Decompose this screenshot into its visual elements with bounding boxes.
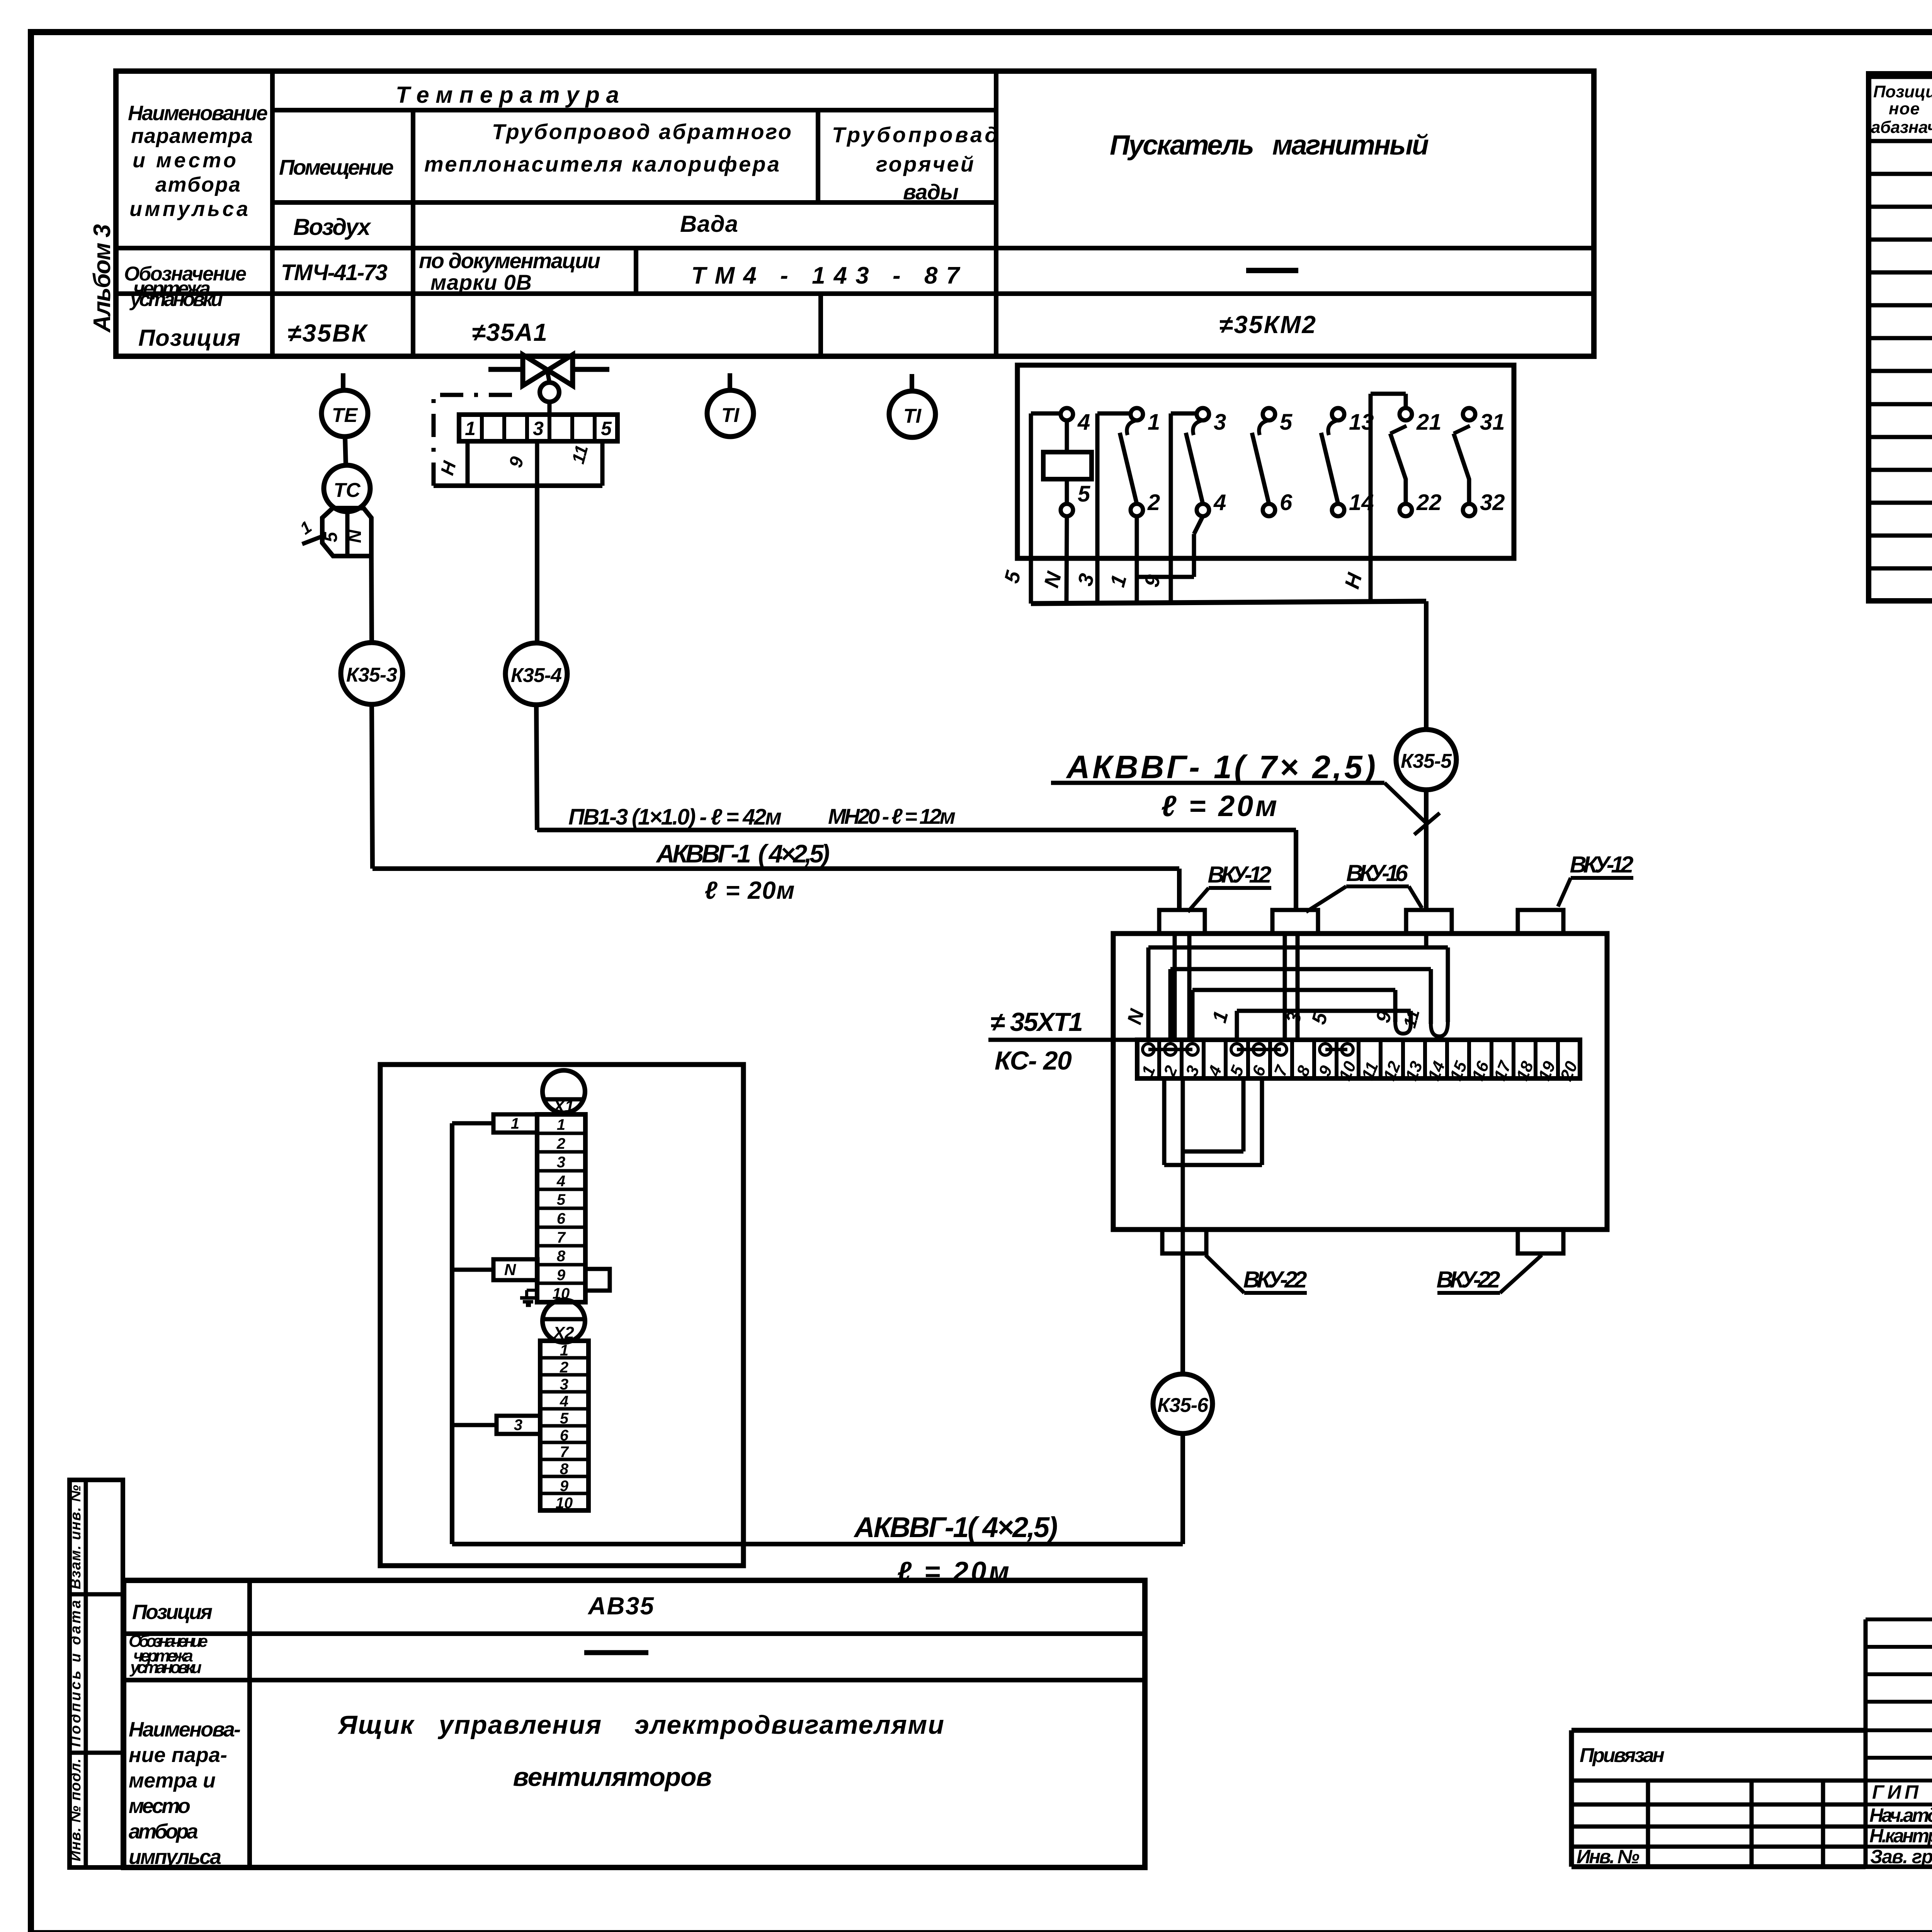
svg-text:Позиция: Позиция: [138, 325, 240, 351]
svg-text:абазначен.: абазначен.: [1871, 118, 1932, 137]
svg-text:6: 6: [557, 1210, 566, 1227]
svg-text:Т е м п е р а т у р а: Т е м п е р а т у р а: [396, 82, 619, 108]
svg-text:Воздух: Воздух: [293, 214, 372, 240]
svg-text:1: 1: [1148, 410, 1160, 435]
svg-text:АКВВГ-1 ( 4×2,5): АКВВГ-1 ( 4×2,5): [656, 839, 830, 868]
svg-text:импульса: импульса: [129, 1845, 221, 1869]
svg-text:3: 3: [514, 1417, 522, 1434]
svg-text:Позиция: Позиция: [132, 1600, 213, 1624]
svg-text:2: 2: [1147, 490, 1160, 515]
svg-text:6: 6: [560, 1427, 569, 1444]
svg-text:Взам. инв. №: Взам. инв. №: [68, 1485, 84, 1589]
svg-text:вентиляторов: вентиляторов: [513, 1762, 712, 1792]
svg-text:32: 32: [1480, 490, 1505, 515]
svg-text:Зав. гр.: Зав. гр.: [1870, 1846, 1932, 1867]
svg-text:4: 4: [1077, 410, 1090, 435]
svg-text:Наименова-: Наименова-: [129, 1718, 241, 1741]
svg-text:ВКУ-12: ВКУ-12: [1208, 862, 1272, 888]
svg-text:3: 3: [557, 1154, 565, 1171]
svg-text:установки: установки: [129, 1658, 202, 1677]
svg-text:6: 6: [1280, 490, 1293, 515]
svg-text:10: 10: [556, 1495, 573, 1512]
svg-text:Трубопровод абратного: Трубопровод абратного: [492, 119, 791, 144]
svg-text:К35-5: К35-5: [1401, 750, 1452, 772]
svg-text:МН20 - ℓ = 12м: МН20 - ℓ = 12м: [828, 804, 956, 828]
svg-text:5: 5: [560, 1410, 569, 1427]
svg-text:АВ35: АВ35: [587, 1592, 654, 1620]
svg-text:ℓ = 20м: ℓ = 20м: [1161, 790, 1277, 823]
svg-text:5: 5: [601, 418, 612, 439]
svg-text:5: 5: [1280, 410, 1293, 435]
svg-text:импульса: импульса: [129, 197, 248, 221]
svg-text:3: 3: [560, 1376, 568, 1393]
svg-text:Трубопровад: Трубопровад: [832, 122, 998, 147]
svg-text:АКВВГ-1( 4×2,5): АКВВГ-1( 4×2,5): [854, 1511, 1058, 1543]
svg-text:Привязан: Привязан: [1580, 1744, 1665, 1767]
svg-text:2: 2: [560, 1359, 568, 1376]
svg-text:≠35А1: ≠35А1: [472, 318, 547, 346]
svg-text:1: 1: [560, 1342, 568, 1359]
svg-text:ГИП: ГИП: [1872, 1781, 1919, 1803]
svg-text:≠35ВК: ≠35ВК: [287, 319, 368, 347]
svg-text:Н.кантр.: Н.кантр.: [1869, 1825, 1932, 1847]
svg-text:Инв. №: Инв. №: [1577, 1846, 1639, 1867]
svg-text:ℓ = 20м: ℓ = 20м: [705, 876, 795, 904]
svg-text:1: 1: [465, 418, 476, 439]
svg-text:N: N: [504, 1260, 517, 1279]
svg-text:8: 8: [557, 1248, 566, 1265]
svg-text:КС- 20: КС- 20: [995, 1046, 1072, 1075]
svg-text:ТМЧ-41-73: ТМЧ-41-73: [281, 260, 388, 285]
svg-text:ВКУ-22: ВКУ-22: [1243, 1267, 1307, 1293]
svg-text:место: место: [129, 1794, 190, 1818]
svg-text:марки 0В: марки 0В: [430, 270, 532, 294]
svg-text:4: 4: [1213, 490, 1226, 515]
svg-text:атбора: атбора: [155, 173, 240, 196]
svg-text:К35-4: К35-4: [511, 664, 562, 687]
svg-text:7: 7: [560, 1444, 569, 1461]
svg-text:ТЕ: ТЕ: [332, 404, 358, 427]
svg-text:31: 31: [1480, 410, 1505, 435]
svg-text:ное: ное: [1889, 99, 1920, 118]
svg-text:вады: вады: [903, 180, 959, 204]
svg-text:ВКУ-12: ВКУ-12: [1570, 852, 1634, 878]
svg-text:ВКУ-22: ВКУ-22: [1437, 1267, 1500, 1293]
svg-text:Вада: Вада: [680, 211, 738, 237]
svg-text:3: 3: [1214, 410, 1226, 435]
svg-text:≠ 35ХТ1: ≠ 35ХТ1: [990, 1007, 1083, 1037]
svg-text:Альбом 3: Альбом 3: [89, 224, 116, 333]
svg-text:ТI: ТI: [903, 405, 922, 427]
svg-text:9: 9: [557, 1267, 566, 1284]
svg-text:Ящик управления электродв: Ящик управления электродвигателями: [337, 1710, 944, 1740]
svg-text:Помещение: Помещение: [279, 155, 394, 179]
svg-text:ние пара-: ние пара-: [129, 1743, 227, 1767]
svg-text:3: 3: [533, 418, 544, 439]
svg-text:ТС: ТС: [333, 479, 361, 502]
svg-text:установки: установки: [129, 288, 223, 311]
svg-text:4: 4: [556, 1173, 565, 1190]
svg-text:атбора: атбора: [129, 1820, 198, 1843]
svg-text:К35-3: К35-3: [346, 664, 397, 686]
svg-text:АКВВГ- 1( 7× 2,5): АКВВГ- 1( 7× 2,5): [1066, 749, 1376, 785]
svg-text:Пускатель магнитный: Пускатель магнитный: [1110, 130, 1429, 161]
svg-text:21: 21: [1416, 410, 1442, 435]
svg-text:ВКУ-16: ВКУ-16: [1346, 860, 1408, 886]
svg-text:параметра: параметра: [131, 124, 253, 148]
svg-text:Наименование: Наименование: [128, 102, 268, 125]
svg-text:4: 4: [560, 1393, 568, 1410]
svg-text:Инв. № подл.: Инв. № подл.: [68, 1759, 84, 1861]
svg-text:9: 9: [560, 1478, 569, 1495]
svg-text:ПВ1-3 (1×1.0) - ℓ = 42м: ПВ1-3 (1×1.0) - ℓ = 42м: [568, 804, 782, 830]
svg-text:К35-6: К35-6: [1157, 1394, 1209, 1417]
svg-text:ТI: ТI: [721, 404, 740, 427]
svg-text:7: 7: [557, 1229, 566, 1246]
svg-text:1: 1: [557, 1116, 565, 1133]
svg-text:5: 5: [557, 1191, 566, 1208]
svg-text:N: N: [345, 529, 365, 543]
svg-text:5: 5: [321, 531, 341, 542]
svg-text:Позицион: Позицион: [1873, 82, 1932, 101]
svg-text:1: 1: [511, 1115, 519, 1132]
svg-text:и место: и место: [133, 149, 236, 172]
svg-text:теплонасителя калорифера: теплонасителя калорифера: [424, 152, 779, 176]
svg-text:5: 5: [1078, 481, 1090, 507]
svg-text:8: 8: [560, 1461, 569, 1478]
svg-text:2: 2: [556, 1135, 565, 1152]
svg-text:метра и: метра и: [129, 1769, 216, 1792]
svg-text:Нач.атд.: Нач.атд.: [1869, 1804, 1932, 1826]
svg-text:22: 22: [1416, 490, 1442, 515]
svg-text:по документации: по документации: [419, 248, 600, 273]
